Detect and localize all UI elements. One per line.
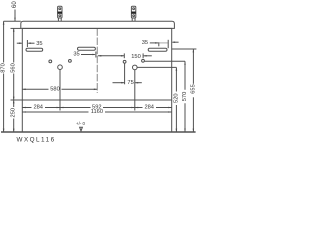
basin body rectangle (plan) [22,28,171,100]
svg-text:35: 35 [73,52,79,58]
dim 1160 [22,111,171,113]
extension from left main hole down [59,70,61,111]
dim 560 line [11,28,23,100]
hole right small B [142,59,145,62]
svg-text:+/- 0: +/- 0 [76,121,85,126]
dim 35 S2 [81,52,96,58]
dim 570 line [184,61,186,132]
leader small hole row to 570 [145,60,185,62]
svg-text:284: 284 [144,104,154,110]
leader slot row to 655 [172,48,197,50]
faucet U-left body [58,6,62,21]
dim 520 line [176,67,178,132]
overflow slot S1 [26,48,43,51]
extension line slab top left [4,20,21,22]
svg-text:250: 250 [11,108,17,118]
extension left edge below [21,100,23,132]
svg-text:560: 560 [11,63,17,73]
extension from right main hole down [134,70,136,111]
svg-text:570: 570 [182,92,188,102]
dim 580 [22,89,97,91]
dim 655 line [193,49,195,132]
hole left small B [69,60,72,63]
extension line slab bottom left [11,27,21,29]
dim 870 line [3,21,5,132]
dim 75 [113,82,142,84]
dim 150 [98,53,152,58]
dim 60 arrow [14,18,16,21]
dim 592 [60,107,135,109]
hole right main [133,65,138,70]
dim 284 left [22,107,60,109]
svg-text:60: 60 [12,1,18,8]
svg-text:WXQL116: WXQL116 [17,136,56,143]
svg-text:1160: 1160 [91,109,103,115]
extension right edge below [171,100,173,132]
datum triangle [80,127,83,131]
dim 60 line [14,10,16,22]
hole left small A [49,60,52,63]
floor line [1,131,196,133]
svg-text:35: 35 [142,40,148,46]
svg-text:75: 75 [127,80,133,86]
faucet U-right body [131,6,135,21]
leader main hole row to 520 [137,66,176,68]
dim 35 S1 [17,40,35,47]
overflow slot S2 [78,47,96,50]
dim 35 S3 [150,40,179,48]
dim 250 line [13,100,15,132]
svg-text:655: 655 [190,84,196,94]
overflow slot S3 [148,48,167,51]
svg-text:580: 580 [50,86,60,92]
hole right small A [123,60,126,63]
svg-text:284: 284 [33,104,43,110]
dim 284 right [135,107,172,109]
extension from right small A down [124,63,126,84]
svg-text:35: 35 [36,41,42,47]
countertop slab (front elevation) [21,21,175,28]
hole left main [58,65,63,70]
centerline [96,28,98,93]
svg-text:520: 520 [173,93,179,103]
svg-text:150: 150 [131,54,141,60]
svg-text:870: 870 [1,63,7,73]
